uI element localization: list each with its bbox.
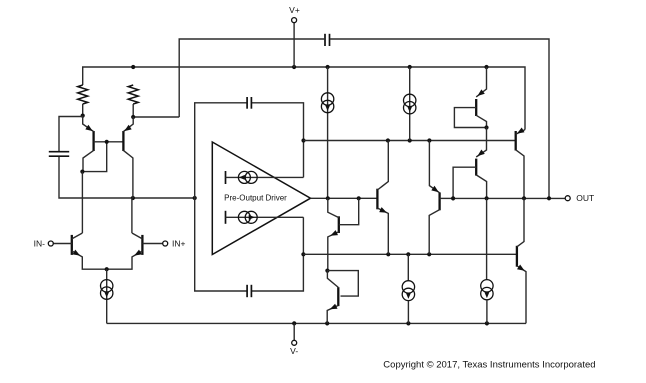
transistor Q2 (input IN+ NPN) bbox=[141, 235, 143, 255]
wire: V+ rail bbox=[83, 67, 525, 130]
wire: driver output line A bbox=[311, 197, 378, 199]
node: Q7 emitter on line B bbox=[386, 252, 390, 256]
transistor Q1 (input IN- NPN) bbox=[71, 235, 73, 255]
node: Q9 collector / Q11 emitter bbox=[484, 125, 488, 129]
svg-text:IN+: IN+ bbox=[172, 238, 186, 248]
node: I6 top bbox=[406, 252, 410, 256]
node: I3 top junction bbox=[408, 65, 412, 69]
resistor R2 bbox=[128, 85, 138, 104]
current source I2 (first mirror leg) bbox=[327, 67, 329, 198]
node: V+ stem junction bbox=[292, 65, 296, 69]
node: Q8 emitter bbox=[427, 138, 431, 142]
current source I6 bbox=[402, 281, 414, 293]
node: I3 bottom bbox=[408, 138, 412, 142]
terminal OUT bbox=[565, 196, 570, 201]
svg-text:Copyright © 2017, Texas Instru: Copyright © 2017, Texas Instruments Inco… bbox=[383, 359, 595, 370]
capacitor C2 (top rail compensation cap) bbox=[324, 34, 326, 46]
node: Q6 emitter on rail bbox=[325, 321, 329, 325]
capacitor C3 (box top) bbox=[246, 97, 248, 109]
transistor Q7 (NPN driver) bbox=[376, 189, 378, 210]
node: V- stem bbox=[292, 321, 296, 325]
wire: I6 feed from line B bbox=[407, 254, 409, 281]
resistor R1 bbox=[78, 85, 88, 104]
node: R2 top junction bbox=[131, 65, 135, 69]
node: Q8/Q11 base tie bbox=[451, 196, 455, 200]
svg-text:V+: V+ bbox=[289, 5, 300, 15]
transistor Q3 (PNP mirror, diode-connected) bbox=[92, 131, 94, 151]
transistor Q12 (NPN, lower output) bbox=[516, 246, 518, 267]
node: Q4 collector on signal line bbox=[131, 196, 135, 200]
terminal V+ bbox=[293, 23, 295, 67]
terminal V- bbox=[293, 323, 295, 340]
node: Q10 collector / Q12 collector bbox=[522, 196, 526, 200]
wire: Q1 collector riser bbox=[81, 172, 83, 233]
pre-output driver box U1 bbox=[195, 103, 304, 291]
node: I2 top junction bbox=[326, 65, 330, 69]
transistor Q11 (mid-right diode PNP) bbox=[475, 159, 477, 176]
op-amp triangle U1 (pre-output driver) bbox=[212, 142, 310, 255]
transistor Q5 (diode-connected) bbox=[338, 216, 340, 233]
transistor Q10 (PNP, upper output) bbox=[515, 131, 517, 151]
node: Q11 collector / I7 feed bbox=[485, 196, 489, 200]
wire: V- bottom rail bbox=[107, 322, 526, 324]
wire: compensation-cap top rail bbox=[179, 39, 549, 198]
wire: line B (box to Q12 base) bbox=[303, 253, 517, 255]
terminal IN+ bbox=[142, 243, 162, 245]
capacitor C1 (left lag cap) bbox=[49, 151, 69, 153]
transistor Q9 (top-right diode PNP) bbox=[475, 99, 477, 116]
wire: C1 top lead bbox=[59, 117, 83, 152]
svg-text:OUT: OUT bbox=[576, 193, 594, 203]
node: driver box left edge bbox=[193, 196, 197, 200]
wire: R2 bottom lead + link to top rail drop bbox=[133, 104, 179, 117]
current source I3 (second mirror leg) bbox=[409, 67, 411, 141]
node: R1 bottom bbox=[81, 114, 85, 118]
node: Q6 collector junction bbox=[325, 269, 329, 273]
current source I4 (upper, in triangle) bbox=[225, 171, 227, 184]
wire: I7 feed from output line bbox=[486, 198, 488, 280]
transistor Q4 (PNP mirror) bbox=[122, 131, 124, 151]
current source I5 (lower, in triangle) bbox=[225, 211, 227, 224]
svg-text:Pre-Output Driver: Pre-Output Driver bbox=[224, 194, 287, 203]
node: Q8 collector on line B bbox=[427, 252, 431, 256]
current source I7 (output stage) bbox=[481, 280, 493, 292]
node: Q3 collector junction bbox=[80, 170, 84, 174]
wire: C1 bottom lead to driver box left bbox=[59, 157, 195, 198]
node: Q5 base tie bbox=[357, 196, 361, 200]
node: I6 bottom bbox=[406, 321, 410, 325]
wire: output line bbox=[453, 197, 565, 199]
node: I7 bottom bbox=[485, 321, 489, 325]
node: comp cap return bbox=[547, 196, 551, 200]
svg-text:V-: V- bbox=[290, 346, 298, 356]
node: Q9 emitter junction bbox=[484, 65, 488, 69]
node: box right upper (bias line) bbox=[301, 138, 305, 142]
wire: Q3 base-collector loop bbox=[82, 142, 106, 172]
terminal IN- bbox=[53, 243, 72, 245]
current source I1 (input tail) bbox=[101, 280, 113, 292]
node: Q5 collector bbox=[326, 196, 330, 200]
transistor Q8 (PNP driver) bbox=[438, 192, 440, 210]
node: box right lower (line B start) bbox=[301, 252, 305, 256]
wire: tail to current source I1 bbox=[106, 269, 108, 323]
capacitor C4 (box bottom) bbox=[246, 285, 248, 297]
svg-text:IN-: IN- bbox=[34, 238, 46, 248]
wire: R1 bottom lead bbox=[82, 104, 84, 116]
node: R2 bottom bbox=[131, 115, 135, 119]
node: input pair tail bbox=[105, 267, 109, 271]
wire: bias line (box to Q10 base) bbox=[304, 140, 516, 142]
node: Q7 collector bbox=[386, 138, 390, 142]
node: Q3/Q4 base rail bbox=[105, 140, 109, 144]
